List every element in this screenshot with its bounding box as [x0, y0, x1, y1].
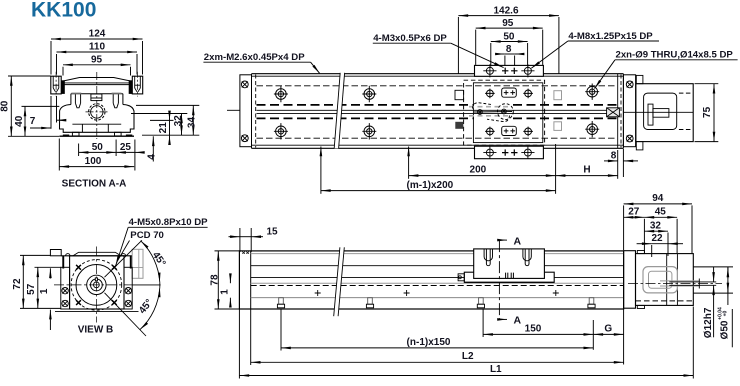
svg-text:110: 110 [89, 42, 106, 53]
svg-text:150: 150 [525, 323, 542, 334]
svg-text:2xn-Ø9 THRU,Ø14x8.5 DP: 2xn-Ø9 THRU,Ø14x8.5 DP [616, 50, 734, 61]
svg-text:A: A [514, 315, 522, 327]
svg-text:22: 22 [651, 233, 663, 244]
svg-text:45: 45 [655, 207, 667, 218]
svg-text:15: 15 [266, 226, 278, 237]
svg-text:21: 21 [158, 122, 169, 134]
svg-text:200: 200 [470, 165, 487, 176]
svg-text:SECTION A-A: SECTION A-A [62, 178, 127, 189]
svg-text:25: 25 [120, 142, 132, 153]
svg-text:4: 4 [147, 154, 158, 160]
svg-text:A: A [514, 235, 522, 247]
svg-text:1: 1 [39, 288, 50, 294]
svg-text:H: H [583, 165, 590, 176]
svg-text:40: 40 [14, 115, 25, 127]
svg-text:4-M3x0.5Px6 DP: 4-M3x0.5Px6 DP [373, 33, 447, 44]
svg-text:124: 124 [89, 29, 106, 40]
svg-text:1: 1 [219, 289, 230, 295]
svg-text:57: 57 [26, 283, 37, 295]
svg-text:L2: L2 [462, 351, 474, 362]
svg-text:KK100: KK100 [31, 0, 96, 22]
svg-text:(m-1)x200: (m-1)x200 [407, 180, 454, 191]
svg-text:(n-1)x150: (n-1)x150 [407, 337, 451, 348]
svg-text:4-M8x1.25Px15 DP: 4-M8x1.25Px15 DP [568, 31, 653, 42]
svg-text:Ø50: Ø50 [719, 320, 730, 339]
svg-text:80: 80 [0, 100, 10, 112]
svg-text:4-M5x0.8Px10 DP: 4-M5x0.8Px10 DP [129, 217, 209, 228]
svg-text:8: 8 [506, 44, 512, 55]
svg-text:Ø12h7: Ø12h7 [703, 307, 714, 338]
svg-text:72: 72 [12, 278, 23, 290]
svg-text:50: 50 [92, 142, 104, 153]
svg-text:7: 7 [30, 116, 36, 127]
svg-text:78: 78 [210, 274, 221, 286]
svg-text:100: 100 [85, 156, 102, 167]
svg-text:50: 50 [503, 32, 515, 43]
svg-text:32: 32 [650, 221, 662, 232]
svg-text:PCD 70: PCD 70 [130, 230, 164, 241]
svg-text:95: 95 [91, 54, 103, 65]
svg-text:95: 95 [502, 18, 514, 29]
svg-text:2xm-M2.6x0.45Px4 DP: 2xm-M2.6x0.45Px4 DP [204, 52, 305, 63]
svg-text:L1: L1 [490, 364, 502, 375]
svg-text:75: 75 [702, 106, 713, 118]
svg-text:34: 34 [187, 117, 198, 129]
svg-text:+0: +0 [723, 310, 729, 316]
svg-text:32: 32 [173, 115, 184, 127]
svg-text:94: 94 [652, 193, 664, 204]
svg-text:142.6: 142.6 [493, 5, 518, 16]
svg-text:8: 8 [611, 151, 617, 162]
svg-text:27: 27 [628, 207, 640, 218]
svg-text:VIEW B: VIEW B [78, 325, 114, 336]
svg-text:G: G [604, 323, 612, 334]
